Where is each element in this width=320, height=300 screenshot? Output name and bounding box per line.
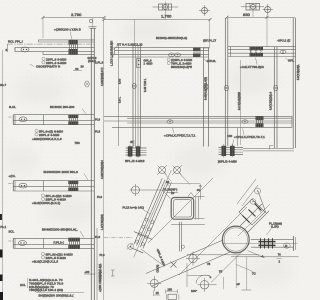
svg-text:PL9: PL9 — [100, 253, 105, 257]
chord work line A — [146, 240, 223, 274]
svg-text:30.7: 30.7 — [0, 83, 6, 87]
vertical dim below chord — [242, 257, 252, 290]
svg-text:(L.5A): (L.5A) — [271, 225, 279, 229]
svg-text:-0PJ.2 (E: -0PJ.2 (E — [277, 39, 290, 43]
label BH400X200 (level3) — [44, 170, 89, 180]
up-right brace end cut line — [258, 191, 266, 213]
chord work line B — [152, 252, 230, 286]
column C1 lower tick 90 — [84, 270, 96, 274]
beam L3 — [13, 181, 94, 191]
label 3CL — [8, 229, 14, 241]
text E 2SPL9 6-M20 — [42, 57, 67, 65]
column C2 bolt oval — [132, 83, 136, 89]
dim 15 under G4 — [154, 291, 161, 297]
section symbol S3 (column section top-right) — [241, 4, 264, 11]
up-right brace end cut line 2 — [255, 202, 262, 213]
label GFP9L — [204, 59, 217, 63]
horizontal brace flanges — [222, 240, 298, 248]
bottom chord line 1 — [187, 254, 259, 256]
post D (right edge) — [293, 18, 295, 148]
label GF9 — [286, 58, 295, 63]
text block E 2SPL9 right of beam M1 — [167, 58, 192, 69]
svg-text:3CL: 3CL — [9, 229, 15, 233]
angle arc 100deg — [196, 275, 211, 283]
up-right brace flange 2 — [247, 211, 269, 233]
grid bubble G2 — [172, 165, 182, 175]
svg-text:5.00: 5.00 — [119, 78, 122, 84]
beam M1 — [113, 48, 209, 58]
horizontal brace end plate — [294, 236, 296, 251]
small vertical tick — [222, 277, 224, 289]
svg-text:790(M)(9.L9 100.4 (90): 790(M)(9.L9 100.4 (90) — [29, 288, 63, 292]
short work line from G3 — [162, 190, 171, 199]
dim 76 over 2 — [277, 253, 282, 263]
text GPL9 1-M20 — [144, 59, 153, 66]
line below square — [171, 224, 205, 226]
beam R1 splice — [250, 47, 264, 57]
grid bubble G4 — [147, 276, 161, 291]
work line from G2 down — [180, 174, 191, 185]
beam L4 splice — [68, 238, 80, 249]
svg-text:L.9(Y.92)(26): L.9(Y.92)(26) — [101, 214, 104, 230]
leader text CPbLXFPEX a — [164, 128, 196, 138]
horizontal brace bolt ticks — [261, 238, 273, 248]
svg-text:L.1Y.3 1.9(3.5)(0.5)H: L.1Y.3 1.9(3.5)(0.5)H — [111, 41, 114, 66]
post B bolt oval — [225, 85, 229, 91]
bottom chord line 2 — [231, 256, 299, 258]
text F SPL9 level4 — [32, 252, 73, 263]
post A bolt oval — [204, 84, 208, 90]
center grid dimension line — [103, 20, 105, 300]
45deg line below circle — [211, 245, 249, 283]
label E circle on brace — [127, 243, 134, 249]
post C — [274, 47, 277, 148]
svg-text:8.4 9(4.9)(26)3: 8.4 9(4.9)(26)3 — [238, 91, 241, 110]
text F SPL9 level3 — [32, 194, 72, 205]
beam L3 bolt oval — [19, 183, 27, 188]
svg-text:3.PL.9: 3.PL.9 — [95, 61, 104, 65]
svg-text:PL6: PL6 — [95, 235, 100, 239]
beam L2 bolt oval — [19, 117, 27, 122]
leader OSOKFPSATVH — [30, 64, 60, 69]
beam L1 bolt oval — [21, 47, 29, 52]
leader text CdLXTY93 — [240, 58, 264, 69]
grid bubble G5 — [198, 278, 217, 292]
post B (left post) — [225, 18, 228, 147]
label GFPL6 — [81, 56, 97, 69]
svg-text:BPL.I2 4-M16: BPL.I2 4-M16 — [125, 159, 145, 163]
bottom-left note block — [20, 278, 63, 292]
svg-text:8.9 L: 8.9 L — [119, 96, 122, 103]
extra column line lower — [96, 228, 98, 300]
bottom label BH 5 9 200 — [36, 293, 84, 298]
svg-text:1 -M20: 1 -M20 — [144, 62, 153, 66]
beam L3 splice — [68, 181, 78, 191]
svg-text:860: 860 — [243, 12, 251, 17]
level2 beam splice — [256, 116, 264, 127]
svg-text:S.CL: S.CL — [9, 105, 16, 109]
steep brace splice ticks — [130, 232, 152, 253]
leader text +J9IX100 — [54, 28, 81, 40]
up-right brace axis — [238, 204, 270, 236]
svg-text:BH400X 200-200: BH400X 200-200 — [50, 105, 75, 109]
svg-text:+90: +90 — [85, 270, 90, 274]
up-right brace flange 1 — [240, 204, 262, 226]
svg-text:PL6: PL6 — [95, 117, 100, 121]
svg-text:150: 150 — [168, 288, 173, 291]
beam M1 bolts — [169, 53, 181, 57]
grid bubble G1 — [157, 165, 167, 175]
circled label t2 — [250, 199, 255, 204]
up-right brace bolt ticks — [243, 204, 262, 223]
svg-text:7C: 7C — [252, 271, 256, 275]
svg-text:8: 8 — [6, 48, 8, 52]
plate right of square — [194, 197, 205, 220]
svg-text:750: 750 — [75, 141, 81, 145]
gusset top dim 90 — [166, 180, 202, 200]
leader arrow to chord — [248, 251, 265, 258]
steep brace flange lines — [134, 170, 172, 257]
svg-text:+(CL: +(CL — [9, 174, 16, 178]
beam L4 bolt oval — [19, 241, 27, 246]
small dim 40 — [73, 67, 82, 71]
svg-text:15: 15 — [156, 292, 159, 295]
steep brace gusset edge — [141, 249, 162, 265]
dashed line to brace — [104, 236, 133, 238]
dimension line 1,760 (top-center) — [103, 13, 212, 49]
dimension line 2.780 (top-left) — [42, 16, 106, 38]
column C1 — [90, 28, 97, 300]
svg-text:+M.6(X200X.(9.X.1): +M.6(X200X.(9.X.1) — [32, 201, 60, 205]
label BH400X200-200 (level2) — [50, 105, 86, 114]
svg-text:RCL FPL.I: RCL FPL.I — [8, 40, 23, 44]
svg-text:45: 45 — [130, 140, 134, 144]
svg-text:BH46EX200-250(501.6(..: BH46EX200-250(501.6(.. — [42, 228, 78, 232]
svg-text:PL6: PL6 — [95, 129, 100, 133]
beam R1 — [228, 47, 296, 57]
left edge scan blob 2 — [0, 250, 3, 258]
left margin dimension line — [2, 50, 4, 300]
beam L2 splice — [68, 115, 78, 125]
svg-text:2CL: 2CL — [20, 283, 26, 287]
left edge scan blob 4 — [0, 292, 3, 300]
column C2 — [132, 20, 143, 148]
beam M1 splice — [193, 48, 201, 57]
svg-text:PL12 to=(c 141): PL12 to=(c 141) — [123, 206, 144, 210]
bracket mark left low — [111, 270, 115, 276]
svg-text:+M20(X200X.6.X.1.9: +M20(X200X.6.X.1.9 — [32, 137, 62, 141]
post below square — [179, 222, 184, 252]
beam L1 splice plates — [69, 40, 78, 55]
grid bubble G3 — [130, 184, 163, 196]
section symbol S2 (bolt circle-cross) — [199, 5, 210, 16]
label LCL — [8, 174, 15, 184]
horizontal dim tick mid-bottom — [187, 274, 210, 276]
text F 5PL9 level2 — [32, 129, 63, 141]
D2 right edge vertical — [237, 128, 239, 146]
svg-text:+CdLXTY93.5)/3: +CdLXTY93.5)/3 — [240, 65, 264, 69]
beam R1 bolt oval right — [280, 50, 286, 54]
svg-text:8.49 Y.90 L: 8.49 Y.90 L — [144, 78, 147, 92]
svg-text:OSOKFPSATV H: OSOKFPSATV H — [36, 65, 60, 69]
svg-text:+(J9IX100 t.Y.5A B: +(J9IX100 t.Y.5A B — [54, 28, 81, 32]
bolt X mark — [171, 262, 177, 268]
small left dim tick — [6, 44, 8, 52]
svg-text:580X150(4.5)*5: 580X150(4.5)*5 — [171, 65, 192, 69]
label S.CL — [8, 105, 16, 117]
svg-text:+M.6(X.20(9.X.1.6: +M.6(X.20(9.X.1.6 — [32, 259, 58, 263]
svg-text:BH400X200 200X 501.6: BH400X200 200X 501.6 — [44, 170, 79, 174]
svg-text:100°: 100° — [191, 289, 197, 293]
45deg work line through square — [148, 178, 213, 243]
roof centerline — [7, 43, 94, 45]
svg-text:BH(5)9(200 200(50)1.6.(: BH(5)9(200 200(50)1.6.( — [39, 294, 74, 298]
dimension line 860 (top-right) — [226, 10, 296, 46]
bubble J3 — [283, 243, 290, 248]
beam L1 bottom flange — [43, 52, 94, 55]
post A — [203, 48, 210, 147]
svg-text:]SPL/2 4-MI6: ]SPL/2 4-MI6 — [218, 160, 237, 164]
svg-text:(BF.PL.I7: (BF.PL.I7 — [203, 39, 216, 43]
diamond gusset plate — [239, 199, 265, 225]
square tube section — [171, 198, 194, 220]
circled label t1 — [255, 188, 261, 194]
small rect detail bottom — [167, 294, 179, 299]
work line from G1 down — [165, 174, 172, 182]
label BH46EX200-250 (level4) — [42, 228, 84, 238]
column C1 top bolt — [89, 19, 97, 26]
bracket GPL9 on C2 — [137, 59, 141, 68]
mark above square — [167, 190, 178, 193]
svg-text:2.780: 2.780 — [71, 12, 82, 17]
svg-text:1,760: 1,760 — [161, 14, 172, 19]
pipe circle — [222, 226, 249, 253]
svg-text:100: 100 — [227, 134, 233, 138]
svg-text:5.9(Y.9)(26)L: 5.9(Y.9)(26)L — [297, 64, 300, 80]
svg-text:20: 20 — [81, 65, 85, 69]
weld mark — [188, 193, 194, 197]
leader 45 on D1 — [130, 140, 134, 146]
leader text GT 9.4 — [114, 42, 143, 48]
left edge line of center view — [118, 46, 120, 146]
svg-text:4.19(4)2(5).9 H: 4.19(4)2(5).9 H — [101, 67, 104, 86]
beam L2 — [13, 115, 94, 125]
pipe centerline vertical — [235, 256, 237, 289]
dim 150 with ticks — [166, 288, 178, 293]
section symbol S4 (bolt circle-cross right) — [263, 4, 274, 15]
svg-text:40: 40 — [75, 67, 79, 71]
horizontal brace plate bands — [259, 241, 276, 243]
svg-text:75: 75 — [219, 269, 223, 273]
svg-text:+CPbLX.FPEX.T.3.T.1: +CPbLX.FPEX.T.3.T.1 — [164, 134, 196, 138]
vertical dim line mid-bottom — [186, 263, 188, 287]
svg-text:PL9: PL9 — [97, 195, 102, 199]
svg-text:75: 75 — [207, 262, 211, 266]
svg-text:8.9(Y.92)(26).4: 8.9(Y.92)(26).4 — [270, 91, 273, 110]
leader text CPbLXFPEX b — [234, 129, 265, 140]
section symbol S1 (column section top-center) — [153, 2, 179, 13]
post C bolt oval — [274, 85, 278, 91]
beam L1 top flange — [39, 40, 95, 42]
svg-text:70.1: 70.1 — [0, 225, 6, 229]
leader 100 on D2 — [233, 140, 234, 147]
svg-text:+CPbLX.FPEX.T9.T.1: +CPbLX.FPEX.T9.T.1 — [234, 135, 265, 139]
svg-text:+(29R X26(X(90)-: +(29R X26(X(90)- — [99, 271, 102, 292]
svg-text:F.PL2-(: F.PL2-( — [54, 241, 64, 245]
up-right brace leader strokes — [237, 179, 258, 206]
left edge scan blob 3 — [0, 275, 3, 282]
level2 beam bolt oval 2 — [242, 120, 248, 124]
label PL12 leader — [123, 206, 152, 215]
beam L1 web lines — [15, 47, 94, 51]
left edge scan blob 1 — [0, 214, 2, 220]
level2 beam bolt oval 1 — [167, 120, 173, 124]
vertical dim line right-mid — [240, 60, 242, 145]
label PL12mb — [267, 221, 283, 235]
D2 plate extension lines — [243, 149, 294, 151]
svg-text:BH300)-350X150(4.9): BH300)-350X150(4.9) — [156, 36, 187, 40]
45deg work line left of circle — [179, 207, 247, 275]
svg-text:8.49(4.9)(26)2.4(9): 8.49(4.9)(26)2.4(9) — [205, 77, 208, 100]
svg-text:aθ: aθ — [237, 283, 240, 286]
leader 7C — [236, 265, 256, 276]
grid bubble G6 — [186, 252, 200, 266]
steep brace bolts — [136, 218, 154, 246]
beam L4 — [13, 238, 94, 248]
svg-text:GFP.9L: GFP.9L — [207, 59, 217, 63]
svg-text:4.29(Y.92)(26)4: 4.29(Y.92)(26)4 — [101, 160, 104, 179]
column C1 bolt oval — [85, 81, 89, 87]
corner mark right — [270, 146, 274, 150]
